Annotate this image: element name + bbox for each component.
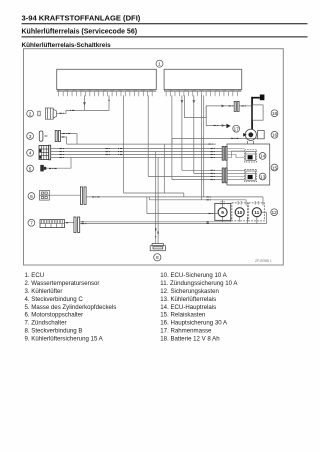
water temperature sensor (2) <box>38 108 57 119</box>
wire: ECU pin bus D <box>181 95 183 170</box>
ECU fuse 10A (10) <box>235 208 244 217</box>
svg-text:6: 6 <box>30 194 33 200</box>
wire: comp5 ground run <box>46 167 71 169</box>
svg-text:14: 14 <box>260 154 266 160</box>
svg-text:18: 18 <box>272 111 278 117</box>
main fuse 30A (16) <box>243 129 264 144</box>
svg-text:16. Hauptsicherung 30 A: 16. Hauptsicherung 30 A <box>160 320 228 327</box>
wire: comp7 rail lower <box>80 223 267 225</box>
svg-text:16: 16 <box>272 133 278 139</box>
wire: fuse top rail <box>149 199 246 201</box>
wire: ECU drop x204 <box>203 95 205 196</box>
callout 15 <box>271 164 278 171</box>
arrow on ground wire <box>222 124 225 127</box>
wire: drop to connector 8 right <box>157 158 159 244</box>
callout 17 <box>233 125 240 132</box>
wire: relay lower pin1 <box>182 169 222 171</box>
wire: comp3 upper <box>61 134 78 145</box>
ECU main relay (14) <box>245 150 257 162</box>
wire: fuse11 bottom stub <box>256 217 258 224</box>
wire: comp2 to ECU <box>56 95 109 113</box>
callout 5 <box>27 165 34 172</box>
wire: comp7 rail upper <box>80 221 231 223</box>
callout 4 <box>27 149 34 156</box>
svg-text:3. Kühlerlüfter: 3. Kühlerlüfter <box>25 288 63 295</box>
wire: comp4 pin3 <box>51 154 223 156</box>
arrow on pin drop x84 <box>83 102 86 105</box>
relay box connector top-left <box>222 146 227 160</box>
connector C (4) <box>39 145 51 160</box>
svg-text:7. Zündschalter: 7. Zündschalter <box>25 320 67 327</box>
wire: ECU pin bus E <box>193 95 195 173</box>
svg-text:3-94 KRAFTSTOFFANLAGE (DFI): 3-94 KRAFTSTOFFANLAGE (DFI) <box>22 14 141 23</box>
svg-text:ZF1939B 1: ZF1939B 1 <box>255 259 272 263</box>
callout 16 <box>271 131 278 138</box>
svg-text:13. Kühlerlüfterrelais: 13. Kühlerlüfterrelais <box>160 296 216 303</box>
svg-text:11: 11 <box>254 210 259 216</box>
wire: comp6 step down <box>148 197 150 200</box>
svg-text:14. ECU-Hauptrelais: 14. ECU-Hauptrelais <box>160 304 216 311</box>
arrow on battery feed wire <box>222 105 225 108</box>
callout 3 <box>27 133 34 140</box>
wire: step down x183.8 <box>183 193 185 197</box>
wire: fuse9 bottom stub <box>222 217 224 222</box>
connector pair on wire 7 <box>74 217 80 233</box>
wire: feed to main fuse <box>172 137 258 139</box>
legend column 2 <box>160 272 238 343</box>
callout 6 <box>28 193 35 200</box>
frame ground (17) <box>226 124 230 129</box>
wire: rail2 riser right <box>265 212 267 223</box>
legend column 1 <box>25 272 117 343</box>
wire: comp6 run right <box>87 196 263 198</box>
wire: comp5 riser to comp4 w3 <box>70 158 72 169</box>
wire: rail1 stub up <box>230 217 232 222</box>
svg-text:9. Kühlerlüftersicherung 15 A: 9. Kühlerlüftersicherung 15 A <box>25 336 104 343</box>
radiator fan relay (13) <box>245 170 257 182</box>
wire: tap vertical x164 <box>163 144 165 193</box>
wire: comp6 run corner into fuse11 <box>262 197 264 206</box>
svg-text:1. ECU: 1. ECU <box>25 272 45 279</box>
wire: ECU pin bus A <box>123 95 125 193</box>
wire: ECU drop x201 <box>200 95 202 199</box>
wire: comp4 pin2 <box>51 151 223 153</box>
wire: ECU pin bus C <box>171 95 173 179</box>
wire: riser link to fuse11 <box>262 211 267 213</box>
wire: relay lower pin4 <box>172 179 222 181</box>
wire: comp3 lower <box>61 137 67 144</box>
relay box internal wires top <box>227 149 245 180</box>
svg-text:8: 8 <box>156 255 159 261</box>
wire: comp4 pin1 <box>51 148 223 150</box>
svg-text:12. Sicherungskasten: 12. Sicherungskasten <box>160 288 219 295</box>
svg-text:17: 17 <box>234 127 240 133</box>
svg-text:3: 3 <box>29 134 32 140</box>
connector pair near battery <box>234 101 239 111</box>
svg-text:18. Batterie 12 V 8 Ah: 18. Batterie 12 V 8 Ah <box>160 336 219 343</box>
wire: ECU pin bus B <box>147 95 149 176</box>
wire: long run y144 to relay box connector <box>67 143 216 145</box>
arrow on pin drop x193 <box>192 100 195 103</box>
wire: down to frame ground <box>206 106 226 126</box>
fuse stub connector ticks <box>220 202 259 204</box>
wire color-code marks <box>49 105 246 224</box>
wire: comp6 drop to fuse9 <box>147 197 218 214</box>
connector B (8) <box>150 244 165 251</box>
svg-text:5: 5 <box>29 166 32 172</box>
wire: rail corner into fuse10 <box>245 200 247 206</box>
callout 12 <box>271 209 278 216</box>
svg-text:12: 12 <box>272 210 278 216</box>
battery 12V (18) <box>251 95 264 130</box>
ECU right box <box>164 69 242 89</box>
callout 13 <box>259 173 266 180</box>
relay box connector bottom-left <box>222 168 227 183</box>
wire: ECU pin to battery loop <box>184 95 234 117</box>
callout 7 <box>28 219 35 226</box>
title rule <box>22 23 308 25</box>
wire: relay lower pin3 <box>148 176 222 178</box>
wire: fuse9 top stub <box>222 200 224 208</box>
svg-text:13: 13 <box>260 174 266 180</box>
svg-text:4: 4 <box>29 151 32 157</box>
svg-text:15. Relaiskasten: 15. Relaiskasten <box>160 312 205 319</box>
arrow on pin drop x181 <box>181 100 184 103</box>
wire: drop to connector 8 left <box>155 152 157 244</box>
svg-text:10: 10 <box>237 210 243 216</box>
diagram frame <box>24 49 284 265</box>
svg-text:2: 2 <box>29 111 32 117</box>
svg-text:17. Rahmenmasse: 17. Rahmenmasse <box>160 328 212 335</box>
svg-text:Kühlerlüfterrelais (Servicecod: Kühlerlüfterrelais (Servicecode 56) <box>22 29 138 36</box>
callout 2 <box>27 110 34 117</box>
callout 18 <box>271 110 278 117</box>
callout 1 <box>156 60 163 67</box>
wire: comp7 stub <box>65 222 74 224</box>
engine stop switch (6) <box>40 190 50 200</box>
ECU pins right <box>164 90 242 97</box>
svg-text:11. Zündungssicherung 10 A: 11. Zündungssicherung 10 A <box>160 280 238 287</box>
connector pair on wire 6 <box>80 187 86 205</box>
radiator fan (3) <box>39 130 60 141</box>
svg-text:5. Masse des Zylinderkopfdecke: 5. Masse des Zylinderkopfdeckels <box>25 304 117 311</box>
svg-text:9: 9 <box>221 210 224 216</box>
svg-text:2. Wassertemperatursensor: 2. Wassertemperatursensor <box>25 280 100 287</box>
ECU pins left <box>57 90 157 97</box>
svg-text:10. ECU-Sicherung 10 A: 10. ECU-Sicherung 10 A <box>160 272 227 279</box>
svg-text:15: 15 <box>272 165 278 171</box>
svg-text:6. Motorstoppschalter: 6. Motorstoppschalter <box>25 312 84 319</box>
wire: comp4 pin4 <box>51 157 223 159</box>
wire: connector to battery plus <box>239 105 252 107</box>
callout 14 <box>259 153 266 160</box>
svg-text:4. Steckverbindung C: 4. Steckverbindung C <box>25 296 84 303</box>
wire: relay lower pin2 <box>194 172 222 174</box>
wire: rail2 stub up <box>247 217 249 224</box>
ECU left box <box>57 69 157 89</box>
ignition switch (7) <box>40 220 65 228</box>
junction dot on pin drop x109 <box>108 100 110 102</box>
callout 8 <box>154 254 161 261</box>
svg-text:Kühlerlüfterrelais-Schaltkreis: Kühlerlüfterrelais-Schaltkreis <box>22 42 112 49</box>
svg-text:8. Steckverbindung B: 8. Steckverbindung B <box>25 328 83 335</box>
wire: bus step y193 <box>124 192 184 194</box>
fuse box (12) dashed enclosures <box>215 203 264 221</box>
wire: pin drop to comp2 wire <box>84 95 86 110</box>
svg-text:1: 1 <box>158 62 161 68</box>
wire: fuse10 bottom stub <box>239 217 241 222</box>
cylinder head cover ground (5) <box>40 165 46 172</box>
ignition fuse 10A (11) <box>252 208 261 217</box>
wire: main fuse feed tap <box>171 138 173 144</box>
relay box (15) <box>227 144 270 185</box>
svg-text:7: 7 <box>30 221 33 227</box>
radiator fan fuse 15A (9) <box>218 208 227 217</box>
section rule <box>22 36 308 38</box>
wire: comp6 run left <box>49 194 80 196</box>
